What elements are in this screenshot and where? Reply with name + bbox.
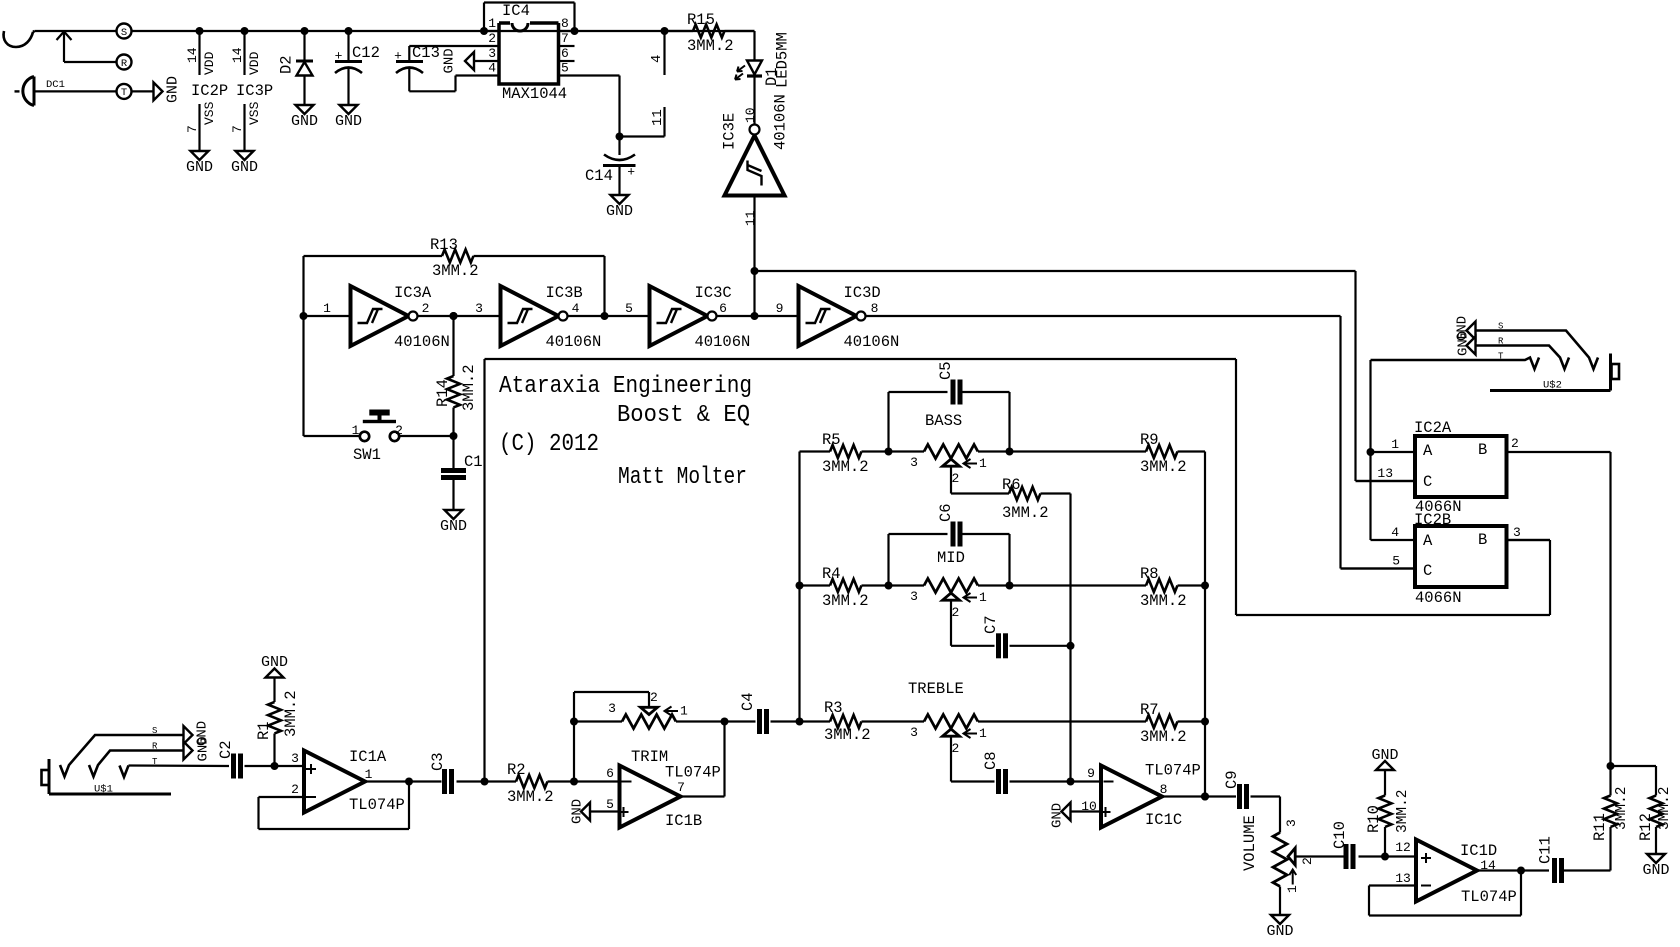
svg-text:3: 3 bbox=[910, 725, 918, 740]
IC4 pin 5 wire bbox=[559, 61, 620, 137]
LED D1 bbox=[735, 31, 792, 125]
svg-text:3MM.2: 3MM.2 bbox=[282, 690, 300, 737]
IC4 pin 7 stub bbox=[559, 31, 575, 46]
svg-text:3: 3 bbox=[608, 701, 616, 716]
svg-text:C5: C5 bbox=[937, 361, 955, 380]
power pins IC2P bbox=[185, 27, 228, 151]
wire IC1B pin5 bbox=[590, 810, 620, 812]
svg-text:C: C bbox=[1423, 562, 1432, 580]
svg-text:14: 14 bbox=[230, 47, 245, 63]
svg-text:S: S bbox=[121, 27, 127, 39]
IC4 pin 4 wire bbox=[456, 61, 500, 76]
svg-text:C1: C1 bbox=[464, 453, 483, 471]
wire IC1D feedback bbox=[1369, 871, 1521, 916]
svg-text:3MM.2: 3MM.2 bbox=[1140, 728, 1187, 746]
svg-text:MID: MID bbox=[937, 549, 965, 567]
svg-text:VOLUME: VOLUME bbox=[1241, 815, 1259, 871]
svg-text:3MM.2: 3MM.2 bbox=[822, 458, 869, 476]
resistor R11 bbox=[1591, 762, 1630, 871]
ground for C14 bbox=[606, 195, 633, 220]
ground IC1B pin5 bbox=[570, 799, 591, 824]
svg-text:U$1: U$1 bbox=[94, 784, 113, 796]
svg-text:2: 2 bbox=[952, 471, 960, 486]
wire R13 feedback loop bbox=[304, 256, 605, 316]
net stub 11 bbox=[620, 107, 667, 137]
inverter IC3B bbox=[501, 284, 602, 351]
wire IC1C output bbox=[1162, 793, 1236, 801]
svg-text:B: B bbox=[1478, 441, 1487, 459]
svg-text:IC3D: IC3D bbox=[844, 284, 881, 302]
svg-text:C7: C7 bbox=[982, 615, 1000, 634]
svg-text:IC3P: IC3P bbox=[236, 82, 273, 100]
inverter IC3A bbox=[351, 284, 450, 351]
svg-text:40106N: 40106N bbox=[772, 94, 790, 150]
wire IC3D out to IC2B control bbox=[1341, 316, 1415, 569]
svg-text:Boost & EQ: Boost & EQ bbox=[617, 402, 750, 429]
title text bbox=[499, 373, 752, 491]
ground IC4 pin 3 bbox=[442, 48, 475, 73]
wire IC2A pin1 bbox=[1371, 437, 1416, 452]
resistor R5 bbox=[800, 431, 889, 476]
svg-text:40106N: 40106N bbox=[695, 333, 751, 351]
wire TRIM left leg bbox=[570, 718, 578, 782]
svg-text:1: 1 bbox=[365, 767, 373, 782]
svg-text:R5: R5 bbox=[822, 431, 841, 449]
IC4 pin 1 wire bbox=[480, 16, 499, 35]
ground IC3P bbox=[231, 151, 258, 176]
capacitor C14 bbox=[585, 133, 636, 196]
svg-text:6: 6 bbox=[561, 46, 569, 61]
op-amp IC1D bbox=[1395, 840, 1517, 907]
resistor R14 bbox=[434, 312, 478, 436]
svg-text:S: S bbox=[152, 726, 157, 736]
svg-text:IC3B: IC3B bbox=[546, 284, 583, 302]
potentiometer TRIM bbox=[574, 690, 725, 729]
svg-text:LED5MM: LED5MM bbox=[774, 32, 792, 88]
svg-text:TL074P: TL074P bbox=[665, 764, 721, 782]
wire C9 to VOLUME bbox=[1279, 797, 1281, 833]
wire SW1 to R14/C1 node bbox=[400, 432, 458, 440]
svg-text:GND: GND bbox=[1371, 747, 1398, 764]
capacitor C13 bbox=[394, 44, 455, 91]
svg-text:B: B bbox=[1478, 531, 1487, 549]
svg-text:IC2P: IC2P bbox=[191, 82, 228, 100]
svg-text:13: 13 bbox=[1395, 871, 1411, 886]
svg-text:R14: R14 bbox=[434, 379, 452, 407]
svg-text:GND: GND bbox=[186, 159, 213, 176]
svg-text:GND: GND bbox=[1642, 862, 1669, 879]
ground above R1 bbox=[261, 654, 288, 678]
ground for R12 bbox=[1642, 854, 1669, 879]
svg-text:2: 2 bbox=[952, 741, 960, 756]
IC4 pin 2 wire bbox=[409, 31, 499, 46]
wire IC2B pin5 bbox=[1341, 554, 1416, 569]
svg-text:7: 7 bbox=[185, 125, 200, 133]
svg-text:1: 1 bbox=[979, 456, 987, 471]
svg-text:VDD: VDD bbox=[247, 51, 262, 75]
svg-text:3: 3 bbox=[1513, 525, 1521, 540]
capacitor C8 bbox=[951, 736, 1071, 794]
svg-text:3MM.2: 3MM.2 bbox=[1002, 504, 1049, 522]
svg-text:3MM.2: 3MM.2 bbox=[1140, 458, 1187, 476]
svg-text:3MM.2: 3MM.2 bbox=[822, 592, 869, 610]
svg-text:GND: GND bbox=[231, 159, 258, 176]
svg-text:Ataraxia Engineering: Ataraxia Engineering bbox=[499, 373, 752, 400]
svg-text:11: 11 bbox=[743, 210, 758, 226]
connector DC1 (DC power jack) bbox=[4, 31, 116, 106]
svg-text:3MM.2: 3MM.2 bbox=[1614, 786, 1630, 830]
svg-text:C9: C9 bbox=[1223, 770, 1241, 789]
svg-text:T: T bbox=[1498, 352, 1504, 362]
svg-text:GND: GND bbox=[442, 48, 458, 73]
resistor R6 bbox=[951, 466, 1071, 522]
svg-text:TL074P: TL074P bbox=[349, 796, 405, 814]
wire IC3A out to IC3B in bbox=[418, 301, 501, 320]
svg-text:GND: GND bbox=[261, 654, 288, 671]
svg-text:3MM.2: 3MM.2 bbox=[460, 364, 478, 411]
ground U$2 sleeve bbox=[1455, 316, 1476, 341]
wire U$2 tip rail bbox=[1367, 360, 1375, 540]
svg-text:R7: R7 bbox=[1140, 701, 1159, 719]
potentiometer TREBLE bbox=[910, 715, 1146, 757]
capacitor C4 bbox=[725, 692, 800, 734]
svg-text:10: 10 bbox=[743, 107, 758, 123]
svg-text:3MM.2: 3MM.2 bbox=[507, 788, 554, 806]
svg-text:GND: GND bbox=[196, 736, 212, 761]
ground above R10 bbox=[1371, 747, 1398, 770]
svg-text:40106N: 40106N bbox=[546, 333, 602, 351]
capacitor C5 bbox=[885, 361, 1010, 455]
svg-text:IC1C: IC1C bbox=[1145, 811, 1182, 829]
svg-text:C12: C12 bbox=[352, 44, 380, 62]
wire IC3A in to SW1 bbox=[304, 316, 360, 436]
wire IC1C pin9 bbox=[1067, 778, 1102, 786]
resistor R1 bbox=[255, 678, 300, 767]
svg-text:VSS: VSS bbox=[247, 101, 262, 125]
svg-text:5: 5 bbox=[625, 301, 633, 316]
svg-text:40106N: 40106N bbox=[394, 333, 450, 351]
diode D2 bbox=[278, 27, 314, 105]
svg-text:1: 1 bbox=[979, 726, 987, 741]
connector U$1 (input jack) bbox=[42, 726, 184, 796]
svg-text:+: + bbox=[627, 165, 635, 180]
svg-text:U$2: U$2 bbox=[1543, 380, 1562, 392]
ground IC1C pin10 bbox=[1050, 803, 1071, 829]
svg-text:R: R bbox=[152, 742, 158, 752]
op-amp IC1B bbox=[606, 748, 721, 830]
svg-text:GND: GND bbox=[165, 76, 182, 103]
svg-text:3: 3 bbox=[488, 46, 496, 61]
svg-text:R4: R4 bbox=[822, 565, 841, 583]
inverter IC3C bbox=[650, 284, 751, 351]
svg-text:3MM.2: 3MM.2 bbox=[1657, 786, 1673, 830]
svg-text:C10: C10 bbox=[1331, 821, 1349, 849]
svg-text:R9: R9 bbox=[1140, 431, 1159, 449]
power pins IC3P bbox=[230, 27, 273, 151]
svg-text:GND: GND bbox=[1050, 803, 1066, 828]
capacitor C2 bbox=[217, 740, 304, 778]
svg-text:2: 2 bbox=[291, 782, 299, 797]
wire EQ mid rail bbox=[1067, 494, 1075, 782]
svg-text:GND: GND bbox=[1266, 923, 1293, 940]
IC4 pin 8 wire bbox=[559, 16, 579, 35]
wire +9V rail bbox=[132, 30, 755, 32]
svg-text:R15: R15 bbox=[687, 11, 715, 29]
svg-text:R2: R2 bbox=[507, 761, 526, 779]
svg-text:2: 2 bbox=[952, 605, 960, 620]
svg-text:R3: R3 bbox=[824, 699, 843, 717]
svg-text:6: 6 bbox=[606, 766, 614, 781]
svg-text:R1: R1 bbox=[255, 721, 273, 740]
resistor R13 bbox=[430, 236, 479, 280]
svg-text:A: A bbox=[1423, 442, 1433, 460]
op-amp IC1A bbox=[291, 748, 405, 814]
switch SW1 bbox=[352, 410, 403, 465]
ground IC2P bbox=[186, 151, 213, 176]
ground for T pin bbox=[154, 76, 182, 103]
svg-text:TREBLE: TREBLE bbox=[908, 680, 964, 698]
svg-text:8: 8 bbox=[561, 16, 569, 31]
svg-text:GND: GND bbox=[291, 113, 318, 130]
svg-text:1: 1 bbox=[979, 590, 987, 605]
svg-text:2: 2 bbox=[488, 31, 496, 46]
inverter IC3E bbox=[721, 94, 790, 195]
svg-text:4: 4 bbox=[649, 55, 665, 63]
svg-text:IC3E: IC3E bbox=[721, 113, 739, 150]
svg-text:C: C bbox=[1423, 473, 1432, 491]
svg-text:40106N: 40106N bbox=[844, 333, 900, 351]
svg-text:5: 5 bbox=[1392, 554, 1400, 569]
svg-text:IC3A: IC3A bbox=[394, 284, 432, 302]
svg-text:R10: R10 bbox=[1365, 805, 1383, 833]
svg-text:13: 13 bbox=[1377, 466, 1393, 481]
svg-text:C2: C2 bbox=[217, 740, 235, 759]
svg-text:(C) 2012: (C) 2012 bbox=[499, 431, 599, 458]
svg-text:6: 6 bbox=[719, 301, 727, 316]
svg-text:3MM.2: 3MM.2 bbox=[1395, 789, 1411, 833]
svg-text:14: 14 bbox=[185, 47, 200, 63]
wire IC2B pin3 bbox=[1507, 525, 1551, 540]
capacitor C6 bbox=[885, 503, 1010, 589]
svg-text:GND: GND bbox=[570, 799, 586, 824]
svg-text:TL074P: TL074P bbox=[1461, 888, 1517, 906]
wire U$1 tip to C2 bbox=[129, 764, 230, 767]
resistor R9 bbox=[1006, 431, 1206, 476]
capacitor C1 bbox=[441, 436, 483, 510]
svg-text:3: 3 bbox=[475, 301, 483, 316]
svg-text:8: 8 bbox=[1160, 782, 1168, 797]
svg-text:2: 2 bbox=[422, 301, 430, 316]
inverter IC3D bbox=[799, 284, 900, 351]
svg-text:11: 11 bbox=[650, 109, 666, 126]
wire IC3A input bbox=[300, 301, 351, 320]
DC1 pin T circle bbox=[117, 84, 132, 99]
wire EQ left rail bbox=[796, 452, 804, 726]
wire bypass net (C3 node to IC2B B) bbox=[485, 359, 1551, 782]
ground U$1 ring bbox=[184, 736, 212, 761]
wire loop over IC4 pin1 to pin8 bbox=[484, 3, 575, 32]
ground U$2 ring bbox=[1456, 331, 1476, 356]
resistor R15 bbox=[665, 11, 755, 55]
svg-text:MAX1044: MAX1044 bbox=[502, 85, 567, 103]
switch IC2B bbox=[1414, 511, 1507, 607]
capacitor C12 bbox=[335, 27, 380, 105]
svg-text:12: 12 bbox=[1395, 840, 1411, 855]
svg-text:3: 3 bbox=[910, 455, 918, 470]
wire arrow from R to S rail bbox=[57, 32, 117, 63]
svg-text:+: + bbox=[394, 49, 402, 64]
svg-text:D2: D2 bbox=[278, 55, 296, 74]
wire IC1A feedback bbox=[259, 782, 410, 830]
ground for D2 bbox=[291, 105, 318, 130]
svg-text:R6: R6 bbox=[1002, 476, 1021, 494]
svg-text:IC2A: IC2A bbox=[1414, 419, 1452, 437]
svg-text:7: 7 bbox=[561, 31, 569, 46]
svg-text:R: R bbox=[1498, 337, 1504, 347]
resistor R2 bbox=[507, 761, 620, 806]
svg-text:R11: R11 bbox=[1591, 813, 1609, 841]
wire net 11 to IC2A control bbox=[755, 271, 1415, 481]
resistor R12 bbox=[1611, 766, 1674, 854]
resistor R3 bbox=[800, 699, 925, 744]
svg-text:9: 9 bbox=[776, 301, 784, 316]
treble label bbox=[908, 680, 964, 698]
capacitor C9 bbox=[1223, 770, 1280, 809]
wire T pin to GND bbox=[132, 90, 154, 92]
svg-text:9: 9 bbox=[1087, 766, 1095, 781]
ground for VOLUME bbox=[1266, 915, 1293, 940]
svg-text:3MM.2: 3MM.2 bbox=[432, 262, 479, 280]
svg-text:TRIM: TRIM bbox=[631, 748, 668, 766]
svg-text:VDD: VDD bbox=[202, 51, 217, 75]
ground for C1 bbox=[440, 510, 467, 535]
svg-text:7: 7 bbox=[230, 125, 245, 133]
ground U$1 sleeve bbox=[184, 721, 211, 746]
svg-text:GND: GND bbox=[1456, 331, 1472, 356]
svg-text:4: 4 bbox=[488, 61, 496, 76]
resistor R8 bbox=[1006, 565, 1206, 610]
op-amp IC1C bbox=[1081, 762, 1201, 830]
svg-text:R8: R8 bbox=[1140, 565, 1159, 583]
wire IC3C out to IC3D in bbox=[717, 301, 799, 320]
IC4 pin 3 wire bbox=[474, 46, 499, 61]
svg-text:IC1B: IC1B bbox=[665, 812, 702, 830]
wire IC3D output bbox=[866, 301, 1341, 316]
svg-text:1: 1 bbox=[1391, 437, 1399, 452]
svg-text:R: R bbox=[121, 58, 128, 70]
svg-text:TL074P: TL074P bbox=[1145, 762, 1201, 780]
wire IC1C pin10 bbox=[1071, 810, 1102, 812]
svg-text:1: 1 bbox=[680, 704, 688, 719]
capacitor C11 bbox=[1537, 836, 1611, 883]
svg-text:3MM.2: 3MM.2 bbox=[1140, 592, 1187, 610]
svg-text:1: 1 bbox=[323, 301, 331, 316]
svg-text:Matt Molter: Matt Molter bbox=[618, 464, 747, 491]
svg-text:3MM.2: 3MM.2 bbox=[687, 37, 734, 55]
wire IC1B out to C4 bbox=[680, 718, 729, 797]
wire IC2A pin13 bbox=[1356, 466, 1416, 481]
capacitor C7 bbox=[951, 600, 1071, 658]
svg-text:C11: C11 bbox=[1537, 836, 1555, 864]
wire EQ right rail bbox=[1201, 452, 1209, 801]
svg-text:R12: R12 bbox=[1637, 813, 1655, 841]
svg-text:7: 7 bbox=[677, 780, 685, 795]
svg-text:4066N: 4066N bbox=[1415, 589, 1462, 607]
svg-text:3: 3 bbox=[910, 589, 918, 604]
svg-text:C3: C3 bbox=[429, 752, 447, 771]
svg-text:IC2B: IC2B bbox=[1414, 511, 1451, 529]
net stub 4 bbox=[649, 27, 669, 75]
svg-text:GND: GND bbox=[440, 518, 467, 535]
potentiometer VOLUME bbox=[1241, 815, 1344, 915]
svg-text:8: 8 bbox=[871, 301, 879, 316]
wire IC1A output bbox=[365, 778, 442, 786]
svg-text:5: 5 bbox=[561, 61, 569, 76]
svg-text:1: 1 bbox=[1285, 885, 1300, 893]
svg-text:A: A bbox=[1423, 532, 1433, 550]
resistor R4 bbox=[800, 565, 889, 610]
svg-text:GND: GND bbox=[606, 203, 633, 220]
svg-text:IC4: IC4 bbox=[502, 2, 530, 20]
IC4 pin 6 stub bbox=[559, 46, 575, 61]
capacitor C10 bbox=[1331, 821, 1416, 869]
capacitor C3 bbox=[429, 752, 516, 794]
wire IC3E input bbox=[743, 196, 759, 317]
resistor R10 bbox=[1365, 770, 1411, 857]
svg-text:SW1: SW1 bbox=[353, 446, 381, 464]
svg-text:2: 2 bbox=[1511, 436, 1519, 451]
potentiometer MID bbox=[889, 549, 1010, 620]
ground for C12 bbox=[335, 105, 362, 130]
svg-text:DC1: DC1 bbox=[46, 79, 65, 91]
connector U$2 (output jack) bbox=[1371, 322, 1620, 392]
wire IC3B out to IC3C in bbox=[568, 301, 650, 320]
svg-text:BASS: BASS bbox=[925, 412, 962, 430]
wire IC1D output bbox=[1477, 867, 1549, 875]
svg-text:2: 2 bbox=[650, 690, 658, 705]
svg-text:VSS: VSS bbox=[202, 101, 217, 125]
svg-text:1: 1 bbox=[352, 423, 360, 438]
wire IC2A pin2 bbox=[1507, 436, 1611, 766]
svg-text:3: 3 bbox=[1284, 819, 1299, 827]
IC U4 MAX1044 bbox=[499, 2, 567, 103]
svg-text:1: 1 bbox=[488, 16, 496, 31]
svg-text:IC1A: IC1A bbox=[349, 748, 387, 766]
svg-text:R13: R13 bbox=[430, 236, 458, 254]
svg-text:3: 3 bbox=[291, 751, 299, 766]
svg-text:C14: C14 bbox=[585, 167, 613, 185]
svg-text:2: 2 bbox=[1300, 857, 1315, 865]
svg-text:4: 4 bbox=[572, 301, 580, 316]
potentiometer BASS bbox=[889, 412, 1010, 486]
switch IC2A bbox=[1414, 419, 1507, 516]
DC1 pin R circle bbox=[117, 55, 132, 71]
svg-text:S: S bbox=[1498, 322, 1503, 332]
resistor R7 bbox=[1140, 701, 1205, 746]
svg-text:T: T bbox=[121, 87, 127, 99]
svg-text:+: + bbox=[335, 49, 343, 64]
svg-text:3MM.2: 3MM.2 bbox=[824, 726, 871, 744]
wire IC2B pin4 bbox=[1371, 525, 1416, 540]
svg-text:4: 4 bbox=[1391, 525, 1399, 540]
svg-text:5: 5 bbox=[606, 797, 614, 812]
svg-text:C4: C4 bbox=[739, 692, 757, 711]
svg-text:C8: C8 bbox=[982, 751, 1000, 770]
svg-text:GND: GND bbox=[335, 113, 362, 130]
svg-text:C6: C6 bbox=[937, 503, 955, 522]
svg-text:IC3C: IC3C bbox=[695, 284, 732, 302]
DC1 pin S circle bbox=[117, 24, 132, 40]
